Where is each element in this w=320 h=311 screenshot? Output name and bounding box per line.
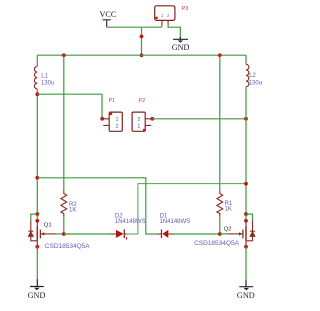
resistor R2 xyxy=(61,191,67,217)
ground GND (right) xyxy=(237,280,255,300)
connector P3 xyxy=(155,6,175,27)
svg-text:P3: P3 xyxy=(182,6,189,12)
svg-text:1K: 1K xyxy=(69,208,76,214)
wire left rail upper xyxy=(36,55,38,66)
svg-text:130u: 130u xyxy=(249,80,262,86)
svg-text:L1: L1 xyxy=(41,74,48,80)
junction L1 / P1 tap xyxy=(35,92,39,96)
wire Q2 gate to node xyxy=(220,233,228,235)
junction Q2 body branch xyxy=(244,212,248,216)
junction rail / R1 xyxy=(218,53,222,57)
diode D1 1N4148WS xyxy=(156,229,219,238)
transistor Q1 xyxy=(28,221,56,247)
diode D2 1N4148WS xyxy=(64,229,127,239)
wire Q1 gate to node xyxy=(56,233,64,235)
wire right rail upper xyxy=(245,55,247,64)
svg-text:P2: P2 xyxy=(139,98,146,104)
inductor L2 xyxy=(246,64,249,86)
resistor R1 xyxy=(217,191,223,217)
svg-text:1: 1 xyxy=(137,124,140,130)
junction (141.5,36.4) xyxy=(140,35,144,39)
svg-text:Q1: Q1 xyxy=(44,223,52,229)
svg-text:Q2: Q2 xyxy=(224,226,232,232)
svg-text:2: 2 xyxy=(115,124,118,130)
wire R1 to gate node xyxy=(219,217,221,235)
wire Q1 body elbow xyxy=(31,214,38,220)
resistor R2 VCC feed wire xyxy=(63,55,65,190)
junction P2 pin 2 xyxy=(150,117,154,121)
wire Q2 body elbow xyxy=(246,214,253,220)
wire top rail xyxy=(37,54,246,56)
wire left rail lower xyxy=(36,89,38,221)
junction P1 pin 1 xyxy=(100,117,104,121)
junction Q1 body branch xyxy=(35,212,39,216)
svg-text:L2: L2 xyxy=(249,73,256,79)
svg-text:GND: GND xyxy=(28,291,46,300)
svg-text:130u: 130u xyxy=(41,80,54,86)
svg-text:1K: 1K xyxy=(225,206,232,212)
junction (141.5,55.3) xyxy=(140,53,144,57)
junction Q2 drain xyxy=(244,219,248,223)
junction Q2 gate / R1 xyxy=(218,232,222,236)
connector P2 xyxy=(132,112,151,131)
power VCC symbol xyxy=(99,10,116,27)
junction right rail / P2 wire xyxy=(244,117,248,121)
wire P3 pin 2 to GND xyxy=(168,25,180,38)
junction Q1 drain xyxy=(35,219,39,223)
wire R2 to gate node xyxy=(63,217,65,235)
svg-text:1: 1 xyxy=(115,117,118,123)
svg-text:1N4148WS: 1N4148WS xyxy=(160,219,191,225)
junction right rail / wire B xyxy=(244,182,248,186)
wire right rail lower xyxy=(245,87,247,221)
ground GND (left) xyxy=(28,279,46,300)
wire Q1 source to GND xyxy=(36,247,38,280)
connector P1 xyxy=(103,112,122,131)
resistor R1 VCC feed wire xyxy=(219,55,221,190)
junction Q2 source xyxy=(244,245,248,249)
wire P2 to right rail xyxy=(152,118,246,120)
svg-text:1N4148WS: 1N4148WS xyxy=(115,219,146,225)
junction rail / R2 xyxy=(62,53,66,57)
wire VCC to P3 pin 1 xyxy=(107,26,162,28)
wire Q2 source to GND xyxy=(245,247,247,280)
wire to P1 xyxy=(37,94,102,119)
svg-text:GND: GND xyxy=(172,43,190,52)
junction Q1 source xyxy=(35,245,39,249)
svg-text:CSD18534Q5A: CSD18534Q5A xyxy=(194,240,239,247)
inductor L1 xyxy=(34,67,37,89)
wire B (D2 cathode to right rail) xyxy=(126,184,246,234)
junction left rail / cross wire A xyxy=(35,176,39,180)
junction Q1 gate / R2 xyxy=(62,232,66,236)
transistor Q2 xyxy=(228,221,256,247)
svg-text:P1: P1 xyxy=(109,98,116,104)
wire A (Q1 drain to D1 cathode) xyxy=(37,178,156,234)
svg-text:GND: GND xyxy=(237,291,255,300)
ground GND (top, P3) xyxy=(172,37,190,52)
svg-text:VCC: VCC xyxy=(99,10,116,19)
svg-text:CSD18534Q5A: CSD18534Q5A xyxy=(45,243,90,250)
svg-text:2: 2 xyxy=(137,117,140,123)
wire VCC drop to top rail xyxy=(141,27,143,55)
